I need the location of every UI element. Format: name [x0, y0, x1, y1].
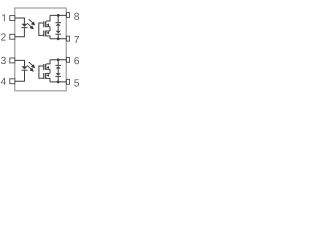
body diode D3 (points up) [56, 23, 61, 26]
MOSFET Q2 channel bar [45, 31, 46, 37]
node junction dot top channel 1 [57, 14, 60, 17]
pin 8 label [74, 13, 79, 20]
pin 5 stub [67, 79, 70, 84]
pin 5 label [74, 79, 79, 86]
MOSFET Q4 body arrow [46, 74, 49, 77]
wire diode branch upper channel 1 [57, 15, 59, 22]
MOSFET Q3 channel bar [45, 64, 46, 70]
wire diode branch lower channel 1 [57, 35, 59, 39]
light arrow channel1 lower [27, 23, 34, 29]
MOSFET Q4 source lead [46, 72, 50, 74]
MOSFET Q1 source lead [46, 26, 50, 28]
LED D1 cathode bar [22, 27, 28, 28]
wire common source tie channel 1 [49, 27, 51, 31]
body diode D6 (points down) [56, 73, 61, 76]
light arrow channel1 upper [29, 19, 36, 25]
wire diode branch lower channel 2 [57, 77, 59, 82]
node junction dot top channel 2 [57, 58, 60, 61]
pin 4 label [1, 78, 6, 85]
gate drive net channel 1 (photodiode bracket) [39, 23, 44, 35]
pin 7 stub [67, 36, 70, 41]
MOSFET Q1 channel bar [45, 21, 46, 27]
MOSFET Q2 source lead [46, 30, 50, 32]
pin 3 stub [10, 58, 15, 63]
wire LED1 cathode to pin2 [15, 28, 25, 37]
wire diode branch upper channel 2 [57, 60, 59, 65]
body diode D5 (points up) [56, 66, 61, 69]
node junction dot bottom channel 2 [57, 81, 60, 84]
MOSFET Q1 drain lead [46, 15, 50, 21]
wire pin3 to LED2 anode [15, 60, 25, 66]
MOSFET Q3 source lead [46, 68, 50, 70]
wire pin8 rail channel 1 [50, 14, 66, 16]
pin 2 label [1, 33, 6, 40]
pin 7 label [74, 36, 79, 43]
pin 4 stub [10, 79, 15, 84]
node junction dot bottom channel 1 [57, 37, 60, 40]
gate drive net channel 2 (photodiode bracket) [39, 66, 44, 78]
MOSFET Q4 drain lead [46, 78, 50, 82]
wire common source tie channel 2 [49, 69, 51, 73]
MOSFET Q2 drain lead [46, 36, 50, 39]
wire LED2 cathode to pin4 [15, 71, 25, 82]
pin 2 stub [10, 34, 15, 39]
body diode D4 cathode bar [55, 34, 61, 35]
light arrow channel2 lower [27, 66, 34, 72]
wire pin1 to LED1 anode [15, 18, 25, 24]
pin 3 label [1, 57, 6, 64]
MOSFET Q2 gate bar [43, 31, 44, 37]
MOSFET Q1 body arrow [46, 23, 49, 26]
LED D1 channel 1 [22, 24, 28, 27]
MOSFET Q4 gate bar [43, 73, 44, 79]
wire between body diodes channel 1 [57, 26, 59, 31]
body diode D4 (points down) [56, 31, 61, 34]
pin 8 stub [67, 13, 70, 18]
body diode D5 cathode bar [55, 65, 61, 66]
pin 1 stub [10, 16, 15, 21]
wire between body diodes channel 2 [57, 69, 59, 74]
body diode D6 cathode bar [55, 76, 61, 77]
LED D2 cathode bar [22, 70, 28, 71]
wire pin6 rail channel 2 [50, 59, 66, 61]
pin 6 stub [67, 57, 70, 62]
pin 1 label [2, 14, 4, 21]
wire pin7 rail channel 1 [50, 38, 66, 40]
LED D2 channel 2 [22, 66, 28, 69]
MOSFET Q3 body arrow [46, 66, 49, 69]
MOSFET Q4 channel bar [45, 73, 46, 79]
light arrow channel2 upper [29, 62, 36, 68]
body diode D3 cathode bar [55, 22, 61, 23]
package outline DIP-8 body [15, 8, 66, 91]
MOSFET Q2 body arrow [46, 32, 49, 35]
MOSFET Q3 drain lead [46, 60, 50, 64]
MOSFET Q1 gate bar [43, 21, 44, 27]
wire pin5 rail channel 2 [50, 81, 66, 83]
pin 6 label [74, 57, 79, 64]
MOSFET Q3 gate bar [43, 64, 44, 70]
